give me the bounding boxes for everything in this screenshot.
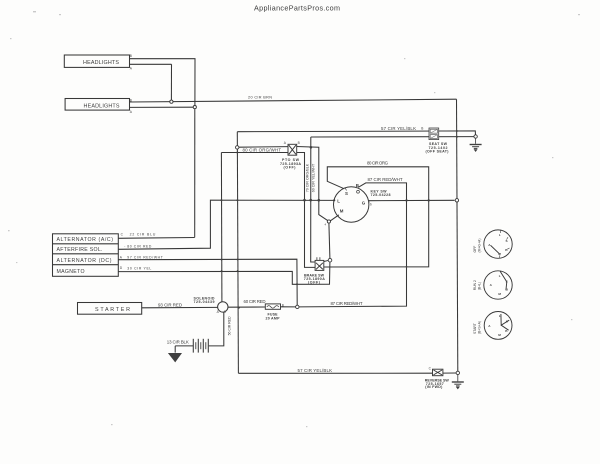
svg-text:L: L (499, 274, 501, 278)
svg-text:B: B (505, 248, 508, 252)
svg-text:B: B (506, 288, 509, 292)
svg-text:L: L (499, 314, 501, 318)
svg-text:C: C (121, 233, 124, 237)
svg-text:MAGNETO: MAGNETO (57, 269, 85, 275)
svg-text:80 CIR ORG/WHT: 80 CIR ORG/WHT (243, 148, 282, 153)
svg-text:13 CIR BLK: 13 CIR BLK (167, 340, 189, 345)
svg-text:S: S (506, 320, 508, 324)
svg-text:A: A (488, 324, 491, 328)
svg-text:(OFF): (OFF) (308, 280, 321, 284)
svg-text:G: G (362, 200, 366, 205)
svg-text:b: b (370, 203, 372, 207)
svg-text:A: A (130, 110, 133, 114)
svg-text:A: A (130, 67, 133, 71)
svg-text:A: A (490, 283, 493, 287)
svg-text:4: 4 (325, 223, 327, 227)
svg-text:725-04228: 725-04228 (371, 193, 391, 197)
svg-text:ALTERNATOR (A/C): ALTERNATOR (A/C) (57, 237, 114, 243)
svg-text:87 CIR RED/WHT: 87 CIR RED/WHT (331, 301, 363, 306)
svg-text:B: B (130, 98, 132, 102)
svg-text:20 AMP: 20 AMP (266, 317, 281, 321)
svg-text:80 CIR ORG: 80 CIR ORG (367, 160, 389, 165)
svg-text:725-04439: 725-04439 (194, 300, 215, 304)
svg-text:97 CIR RED/WHT: 97 CIR RED/WHT (127, 256, 163, 260)
svg-text:HEADLIGHTS: HEADLIGHTS (83, 60, 119, 66)
svg-text:L: L (337, 198, 340, 203)
svg-text:87 CIR RED/WHT: 87 CIR RED/WHT (368, 177, 403, 182)
svg-text:B: B (130, 54, 132, 58)
svg-text:(OFF SEAT): (OFF SEAT) (426, 150, 450, 154)
svg-text:B: B (356, 183, 359, 188)
svg-text:A: A (284, 141, 287, 145)
svg-text:S: S (345, 191, 348, 196)
svg-text:STARTER: STARTER (95, 307, 130, 313)
svg-text:M: M (498, 333, 501, 337)
svg-text:-: - (124, 244, 125, 248)
svg-text:B: B (282, 303, 284, 307)
svg-text:80 CIR RED: 80 CIR RED (127, 245, 152, 249)
svg-text:A: A (120, 255, 123, 259)
svg-text:D: D (120, 266, 123, 270)
svg-text:70 CIR ORG/BLK: 70 CIR ORG/BLK (306, 163, 310, 192)
svg-text:60 CIR RED: 60 CIR RED (244, 299, 266, 304)
svg-text:93 CIR RED: 93 CIR RED (158, 302, 182, 307)
svg-text:AFTERFIRE SOL.: AFTERFIRE SOL. (57, 247, 103, 253)
svg-text:C: C (429, 367, 432, 371)
svg-text:OFF: OFF (473, 246, 477, 253)
svg-text:30 CIR YEL: 30 CIR YEL (127, 266, 151, 270)
svg-text:S: S (224, 310, 226, 314)
svg-text:22 CIR BLU: 22 CIR BLU (130, 233, 156, 237)
svg-text:57 CIR YEL/BLK: 57 CIR YEL/BLK (381, 126, 416, 131)
svg-text:B: B (421, 127, 423, 131)
svg-text:B: B (298, 141, 300, 145)
svg-text:L: L (499, 233, 501, 237)
svg-text:M: M (498, 252, 501, 256)
svg-text:56 CIR RED: 56 CIR RED (228, 316, 232, 335)
svg-text:(B+S+A): (B+S+A) (478, 321, 482, 334)
svg-text:AppliancePartsPros.com: AppliancePartsPros.com (254, 4, 340, 13)
svg-text:A: A (488, 243, 491, 247)
svg-text:(OFF): (OFF) (284, 166, 297, 170)
svg-text:20 CIR BRN: 20 CIR BRN (248, 96, 272, 100)
svg-text:60 CIR YEL/WHT: 60 CIR YEL/WHT (312, 163, 316, 192)
svg-text:(M+G+A): (M+G+A) (477, 239, 481, 253)
svg-text:ALTERNATOR (DC): ALTERNATOR (DC) (57, 258, 112, 264)
svg-text:M: M (340, 209, 344, 214)
svg-text:(IN FWD): (IN FWD) (425, 385, 443, 389)
svg-text:S: S (506, 280, 508, 284)
svg-text:RUN 2: RUN 2 (473, 280, 477, 290)
svg-text:START: START (473, 323, 477, 334)
svg-text:M: M (498, 292, 501, 296)
svg-text:HEADLIGHTS: HEADLIGHTS (84, 104, 120, 110)
svg-text:(B+L): (B+L) (477, 282, 481, 290)
svg-text:S: S (506, 239, 508, 243)
svg-text:57 CIR YEL/BLK: 57 CIR YEL/BLK (298, 368, 333, 373)
